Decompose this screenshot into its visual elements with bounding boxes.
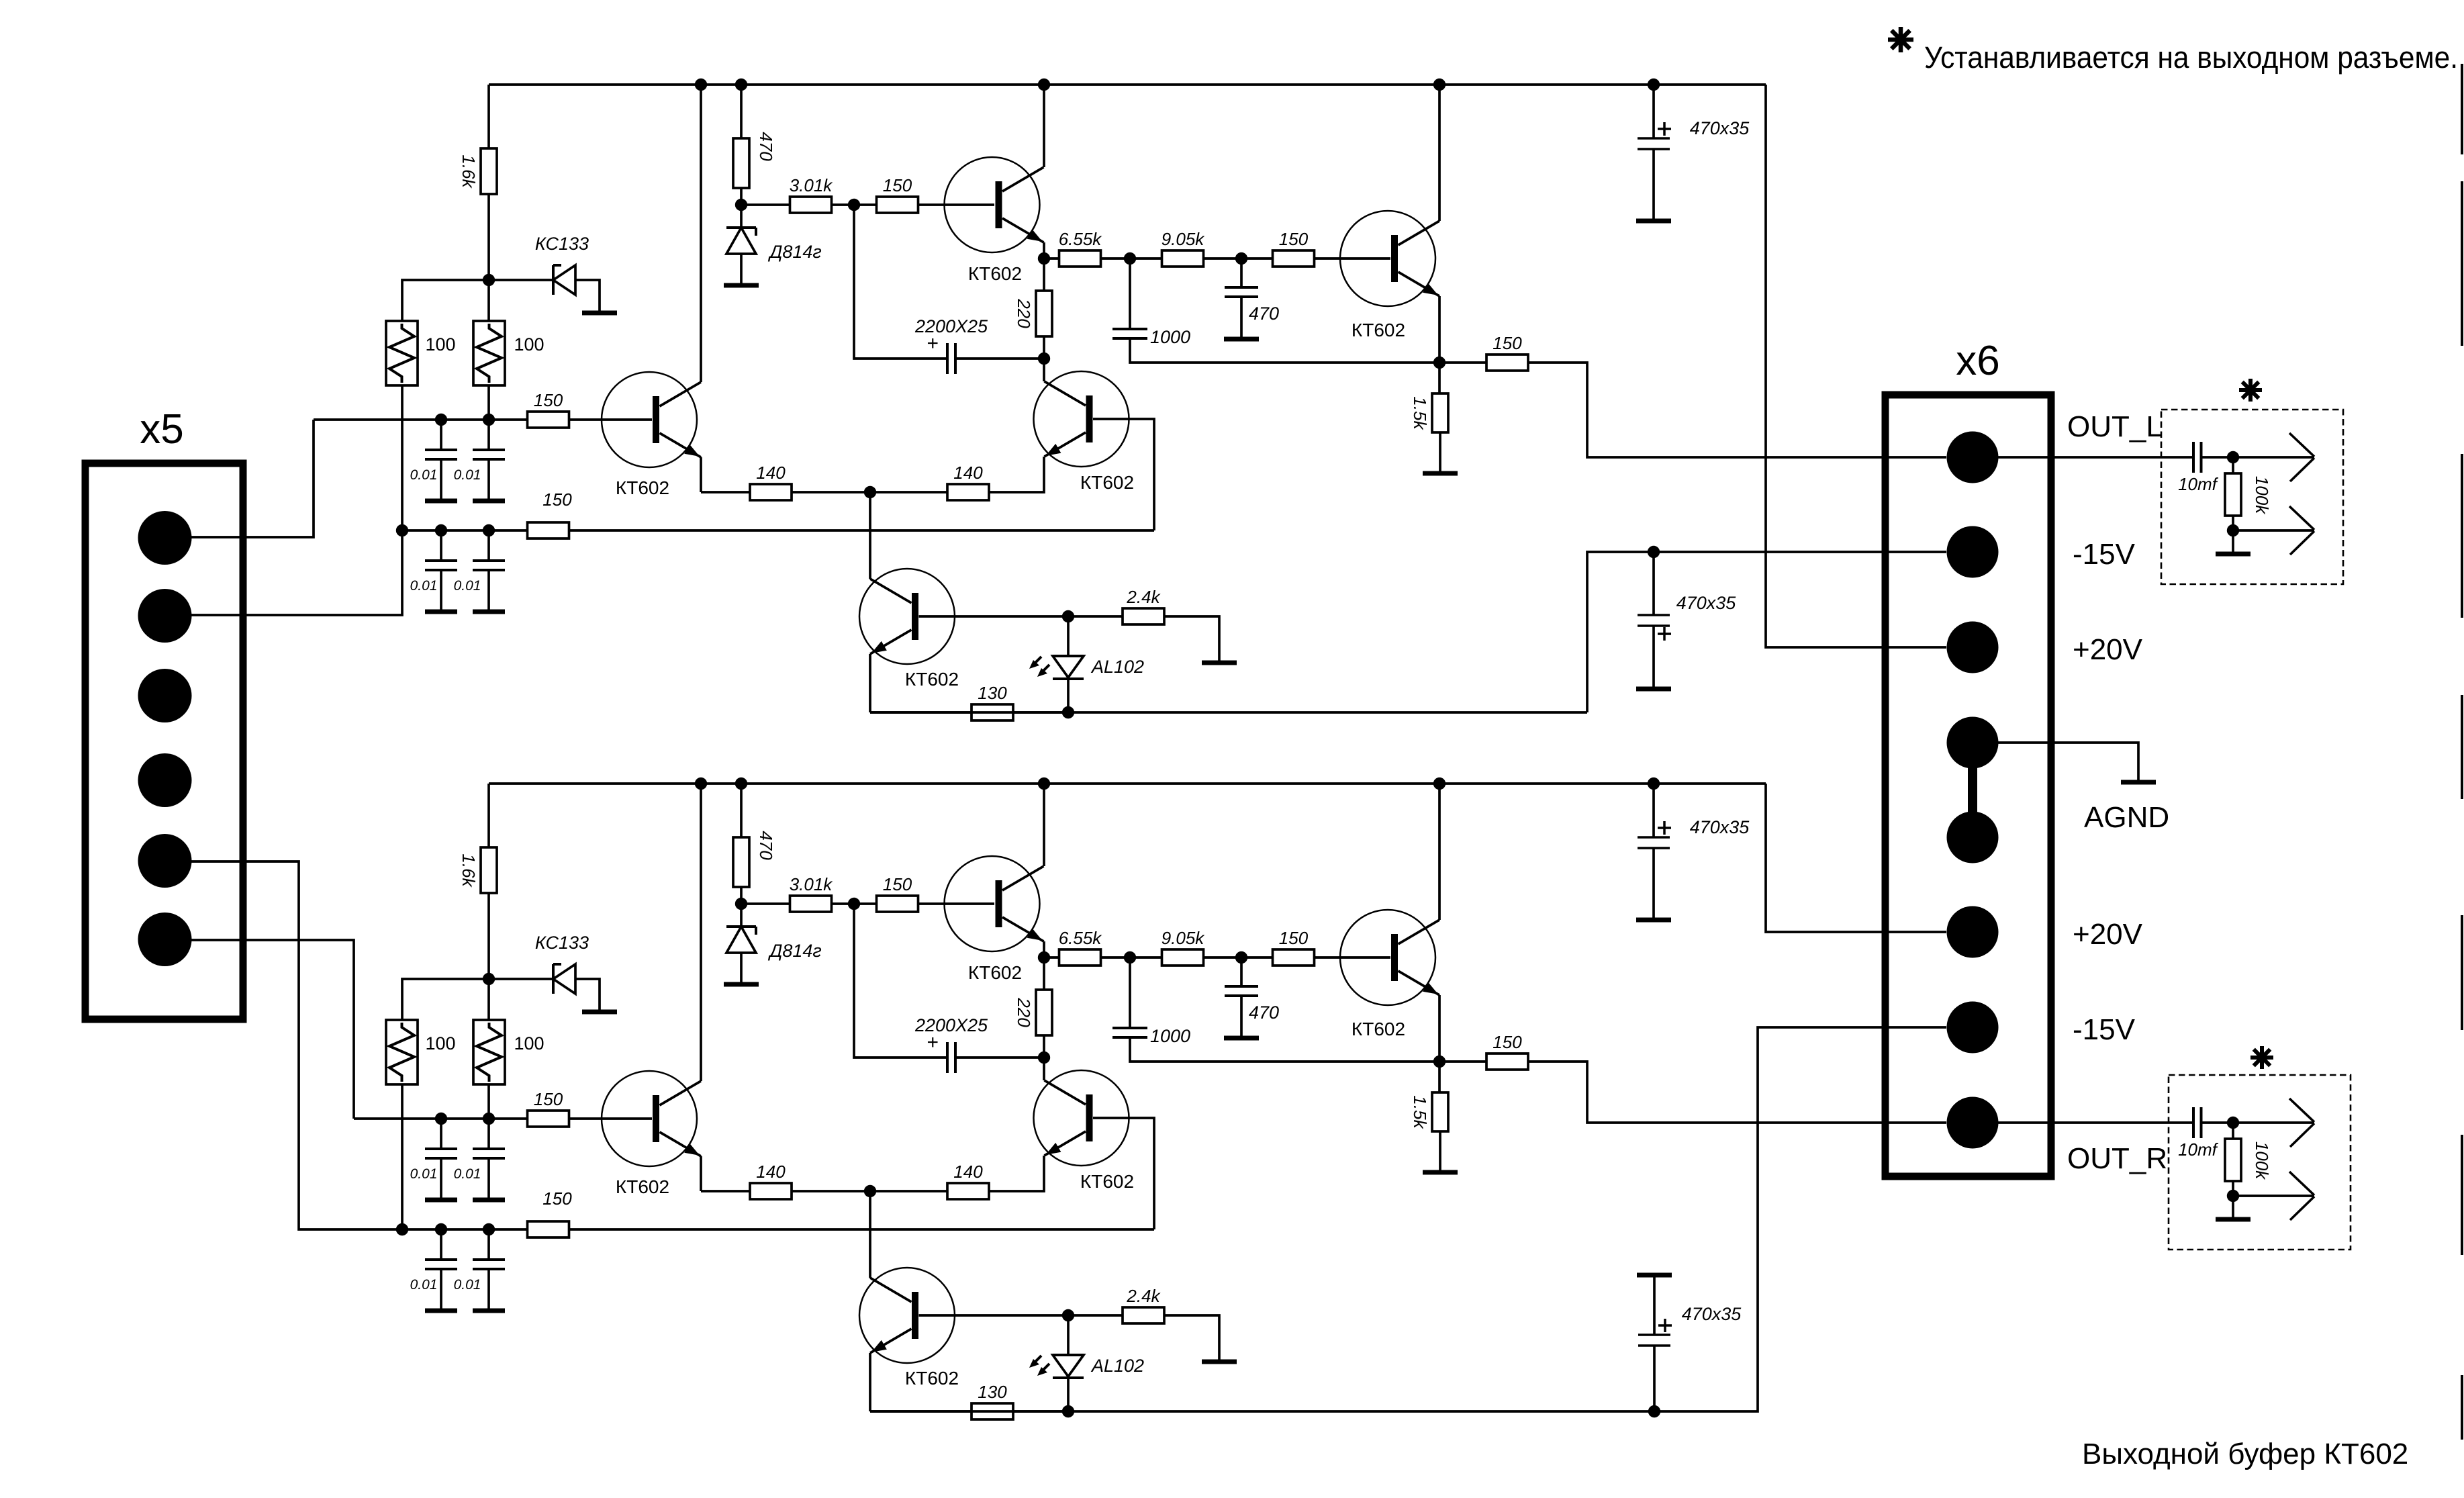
svg-text:1.6k: 1.6k	[459, 154, 479, 189]
svg-text:220: 220	[1014, 997, 1034, 1027]
asterisk marker (OUT_R)	[2250, 1046, 2273, 1069]
resistor 1.5k (left channel)	[1410, 363, 1448, 432]
wire 220 to cap node (left channel)	[1043, 336, 1045, 359]
wire 1.6k to rail (right channel)	[487, 784, 490, 847]
svg-text:470x35: 470x35	[1690, 118, 1750, 138]
node 140 mid (left channel)	[864, 486, 876, 498]
svg-text:0.01: 0.01	[454, 467, 481, 483]
wire node to KC133 (left channel)	[489, 279, 553, 281]
asterisk marker (OUT_L)	[2239, 379, 2262, 402]
svg-text:100: 100	[514, 334, 544, 355]
wire feedback from 3.01k node (right channel)	[854, 904, 947, 1058]
resistor 140 A (right channel)	[750, 1162, 792, 1199]
wire Q2 collector to rail (left channel)	[1043, 85, 1045, 167]
svg-text:2.4k: 2.4k	[1126, 1286, 1161, 1306]
wire Q2 emitter to 6.55k node (left channel)	[1043, 242, 1045, 259]
wire connector pin to 10mf (OUT_L)	[1973, 456, 2193, 459]
svg-text:КТ602: КТ602	[905, 669, 959, 690]
ground 0.01 row1 B (right channel)	[473, 1198, 505, 1203]
capacitor 0.01 row2 A (left channel)	[410, 530, 457, 610]
wire 100L down (right channel)	[401, 1084, 404, 1229]
svg-text:150: 150	[1492, 1032, 1522, 1052]
node 100k top (OUT_L)	[2227, 451, 2239, 463]
wire Q3 emitter down (right channel)	[1438, 995, 1441, 1062]
svg-text:150: 150	[1492, 333, 1522, 353]
node row1 cap A (right channel)	[435, 1113, 447, 1125]
svg-text:x6: x6	[1956, 338, 1999, 384]
svg-text:0.01: 0.01	[410, 467, 438, 483]
wire Q1 collector to rail (left channel)	[700, 85, 702, 382]
resistor 1.6k (right channel)	[459, 847, 497, 893]
wire 140A to node (right channel)	[792, 1190, 948, 1192]
svg-text:AL102: AL102	[1090, 657, 1144, 677]
transistor Q1 KT602 (left channel)	[602, 372, 701, 498]
node 470 cap (left channel)	[1203, 252, 1273, 265]
svg-text:100: 100	[425, 334, 455, 355]
node row1 cap B (left channel)	[483, 414, 495, 426]
resistor 2.4k (right channel)	[1123, 1286, 1164, 1323]
transistor Q4 KT602 current source (left channel)	[859, 569, 959, 690]
node row1 cap B (right channel)	[483, 1113, 495, 1125]
transistor Q2 KT602 driver (right channel)	[945, 856, 1044, 983]
wire 470 to node (right channel)	[740, 887, 743, 904]
node LED cathode (left channel)	[1062, 706, 1074, 718]
transistor Q4 KT602 current source (right channel)	[859, 1268, 959, 1389]
X6 pin 7 -15V	[1947, 1002, 1999, 1054]
transistor Q1 KT602 (right channel)	[602, 1071, 701, 1197]
ground 0.01 row2 B (right channel)	[473, 1309, 505, 1313]
resistor 1.5k (right channel)	[1410, 1062, 1448, 1131]
wire 150 to Q3 base (left channel)	[1314, 257, 1390, 260]
wire OUT_L from 150 to connector	[1528, 363, 1946, 457]
title text	[2082, 1438, 2408, 1470]
wire 140A to node (left channel)	[792, 491, 948, 494]
svg-text:9.05k: 9.05k	[1162, 229, 1206, 249]
resistor 100 left (left channel)	[386, 321, 456, 385]
X6 pin 5 AGND	[1947, 812, 1999, 863]
svg-text:470: 470	[1249, 303, 1279, 324]
transistor Q2b KT602 (right channel)	[1034, 1070, 1135, 1192]
resistor 1.6k (left channel)	[459, 148, 497, 194]
wire 140B to Q2b emitter (left channel)	[989, 457, 1044, 492]
svg-text:100: 100	[514, 1033, 544, 1054]
svg-text:140: 140	[756, 1162, 786, 1182]
svg-text:6.55k: 6.55k	[1059, 229, 1103, 249]
node bias (right channel)	[735, 898, 747, 910]
resistor 100 right (right channel)	[473, 1020, 544, 1084]
ground D814 (left channel)	[724, 283, 759, 288]
resistor 3.01k (left channel)	[741, 175, 833, 213]
resistor 140 B (right channel)	[947, 1162, 989, 1199]
resistor 6.55k (left channel)	[1044, 229, 1102, 267]
node LED cathode (right channel)	[1062, 1405, 1074, 1417]
wire Q4 emitter down (right channel)	[869, 1353, 871, 1411]
svg-text:x5: x5	[140, 406, 183, 453]
ground AGND	[2121, 780, 2156, 785]
ground 470 cap (right channel)	[1224, 1036, 1259, 1041]
transistor Q3 KT602 output (left channel)	[1340, 211, 1439, 340]
node bias (left channel)	[735, 199, 747, 211]
wire 100R down (left channel)	[487, 385, 490, 420]
wire 1.5k to ground (right channel)	[1439, 1131, 1441, 1170]
jack contact tip (OUT_L)	[2289, 433, 2314, 481]
resistor 470 bias (right channel)	[733, 831, 776, 887]
resistor 220 (left channel)	[1014, 259, 1052, 336]
resistor 150 row1 (left channel)	[528, 390, 569, 428]
resistor 220 (right channel)	[1014, 957, 1052, 1035]
wire Q4 collector to 140 node (right channel)	[869, 1191, 871, 1278]
wire Q3 emitter down (left channel)	[1438, 296, 1441, 363]
wire 1.5k to ground (left channel)	[1439, 432, 1441, 471]
X6 pin 6 +20V	[1947, 906, 1999, 958]
wire Q4 base to LED node (right channel)	[919, 1314, 1124, 1317]
resistor 130 (left channel)	[972, 683, 1013, 720]
resistor 150 Q3 base (right channel)	[1273, 928, 1315, 966]
X6 pin 8 OUT_R	[1947, 1097, 1999, 1149]
svg-text:100k: 100k	[2252, 476, 2272, 515]
svg-text:2200X25: 2200X25	[914, 1015, 988, 1035]
wire -15V right channel	[870, 1027, 1946, 1411]
node Q4 base (left channel)	[1062, 610, 1074, 622]
node 140 mid (right channel)	[864, 1185, 876, 1197]
asterisk note marker	[1888, 27, 1913, 52]
svg-text:100k: 100k	[2252, 1141, 2272, 1180]
node Q1 collector rail (left channel)	[695, 79, 707, 91]
node Q2 emitter (left channel)	[1038, 252, 1050, 265]
wire +20V supply rail (right channel)	[489, 782, 1766, 785]
X5 pin 4	[138, 753, 192, 807]
wire OUT_R from 150 to connector	[1528, 1062, 1946, 1123]
wire 2.4k to ground (right channel)	[1164, 1315, 1219, 1360]
node row2 cap A (right channel)	[435, 1223, 447, 1235]
capacitor 470x35 -15V right	[1638, 1277, 1742, 1411]
zener diode KC133 (right channel)	[535, 933, 589, 994]
label +20V right	[2073, 918, 2143, 951]
capacitor 10mf (OUT_L)	[2178, 442, 2219, 494]
wire rail to +20V pin (right channel)	[1766, 784, 1946, 932]
wire connector pin to 10mf (OUT_R)	[1973, 1121, 2193, 1124]
wire Q1 collector to rail (right channel)	[700, 784, 702, 1081]
capacitor 0.01 row1 A (left channel)	[410, 420, 457, 499]
svg-text:6.55k: 6.55k	[1059, 928, 1103, 948]
svg-text:+20V: +20V	[2073, 633, 2143, 666]
svg-text:0.01: 0.01	[454, 1277, 481, 1293]
wire 130 to LED node (left channel)	[1013, 711, 1068, 714]
wire 1.6k to KC133 node (right channel)	[487, 893, 490, 979]
resistor 3.01k (right channel)	[741, 874, 833, 912]
label OUT_R	[2067, 1142, 2167, 1175]
resistor 100 right (left channel)	[473, 321, 544, 385]
wire AGND to ground	[1998, 743, 2138, 780]
capacitor 470x35 -15V left	[1638, 552, 1736, 687]
svg-text:Выходной буфер КТ602: Выходной буфер КТ602	[2082, 1438, 2408, 1470]
ground jack (OUT_R)	[2216, 1217, 2250, 1222]
wire 100k node to jack sleeve (OUT_L)	[2233, 529, 2314, 532]
capacitor 1000 (left channel)	[1112, 259, 1190, 347]
svg-text:3.01k: 3.01k	[790, 175, 834, 195]
ground 2.4k (right channel)	[1202, 1360, 1237, 1364]
svg-text:1.5k: 1.5k	[1410, 396, 1430, 430]
resistor 9.05k (left channel)	[1162, 229, 1206, 267]
svg-text:0.01: 0.01	[454, 1166, 481, 1182]
wire input row 1 (right channel)	[354, 1117, 528, 1120]
capacitor 2200X25 (left channel)	[914, 316, 1044, 374]
wire Q4 base to LED node (left channel)	[919, 615, 1124, 618]
svg-text:0.01: 0.01	[454, 578, 481, 594]
svg-text:10mf: 10mf	[2178, 1139, 2219, 1160]
svg-text:КТ602: КТ602	[968, 962, 1022, 983]
svg-text:470x35: 470x35	[1682, 1304, 1742, 1324]
svg-text:AGND: AGND	[2084, 801, 2169, 834]
capacitor 470 (left channel)	[1225, 259, 1279, 337]
ground 0.01 row1 B (left channel)	[473, 499, 505, 504]
node rail cap (right channel)	[1648, 778, 1660, 790]
svg-text:150: 150	[1279, 229, 1309, 249]
resistor 9.05k (right channel)	[1162, 928, 1206, 966]
wire KC133 to ground (left channel)	[575, 280, 600, 312]
svg-text:КС133: КС133	[535, 234, 589, 254]
svg-text:1.5k: 1.5k	[1410, 1095, 1430, 1129]
wire 100k node to jack sleeve (OUT_R)	[2233, 1195, 2314, 1197]
wire Q2b base to row2 (right channel)	[1093, 1118, 1154, 1229]
node Q3 emitter (right channel)	[1433, 1056, 1446, 1068]
wire right edge segments	[2461, 64, 2463, 1440]
svg-text:2200X25: 2200X25	[914, 316, 988, 336]
wire 1000 to emitter row (right channel)	[1130, 1037, 1439, 1062]
resistor 150 row1 (right channel)	[528, 1089, 569, 1127]
wire feedback from 3.01k node (left channel)	[854, 205, 947, 359]
X6 AGND jumper bar	[1968, 743, 1977, 837]
node 3.01k out (right channel)	[831, 898, 877, 910]
svg-text:0.01: 0.01	[410, 1166, 438, 1182]
ground KC133 (right channel)	[582, 1010, 617, 1015]
wire +20V supply rail (left channel)	[489, 83, 1766, 86]
svg-text:Устанавливается на выходном ра: Устанавливается на выходном разъеме.	[1924, 40, 2458, 75]
node rail cap (left channel)	[1648, 79, 1660, 91]
node 470 cap (right channel)	[1203, 951, 1273, 964]
node 2200X25 (right channel)	[1038, 1051, 1050, 1064]
svg-text:100: 100	[425, 1033, 455, 1054]
ground 0.01 row2 B (left channel)	[473, 610, 505, 614]
svg-text:150: 150	[883, 175, 912, 195]
wire X5 pin1 to row1 left	[191, 420, 314, 537]
X6 pin 1 OUT_L	[1947, 432, 1999, 483]
connector X5	[85, 406, 243, 1019]
wire KC133 node to 100 resistors (left channel)	[402, 280, 489, 321]
wire row2 to Q2b base corner (right channel)	[569, 1228, 1154, 1231]
wire Q4 collector to 140 node (left channel)	[869, 492, 871, 579]
wire 100R down (right channel)	[487, 1084, 490, 1119]
transistor Q3 KT602 output (right channel)	[1340, 910, 1439, 1039]
node 100k bottom (OUT_L)	[2227, 516, 2239, 536]
X6 pin 3 +20V	[1947, 622, 1999, 673]
capacitor 470 (right channel)	[1225, 957, 1279, 1036]
wire Q2b collector up (left channel)	[1043, 359, 1045, 381]
LED AL102 (left channel)	[1029, 616, 1144, 712]
svg-text:470: 470	[756, 132, 776, 161]
X6 pin 2 -15V	[1947, 526, 1999, 578]
node row2 left (left channel)	[396, 524, 408, 536]
X6 pin 4 AGND	[1947, 717, 1999, 769]
node 3.01k out (left channel)	[831, 199, 877, 211]
wire rail to +20V pin (left channel)	[1766, 85, 1946, 647]
wire input row 2 (left channel)	[402, 529, 528, 532]
zener diode D814g (left channel)	[726, 205, 822, 262]
capacitor 0.01 row1 B (left channel)	[454, 420, 505, 499]
wire Q4 emitter down (left channel)	[869, 654, 871, 712]
capacitor 470x35 rail (right channel)	[1638, 784, 1750, 918]
wire 470 to rail (right channel)	[740, 784, 743, 837]
ground 2.4k (left channel)	[1202, 661, 1237, 665]
capacitor 10mf (OUT_R)	[2178, 1107, 2219, 1160]
wire 100k to ground (OUT_L)	[2232, 530, 2234, 552]
svg-text:КТ602: КТ602	[616, 477, 669, 498]
label +20V left	[2073, 633, 2143, 666]
wire Q2 emitter to 6.55k node (right channel)	[1043, 941, 1045, 957]
capacitor 0.01 row1 B (right channel)	[454, 1119, 505, 1198]
node row1 cap A (left channel)	[435, 414, 447, 426]
capacitor 0.01 row2 B (right channel)	[454, 1229, 505, 1309]
wire Q2b collector up (right channel)	[1043, 1058, 1045, 1080]
svg-text:1000: 1000	[1150, 327, 1190, 347]
svg-text:1.6k: 1.6k	[459, 853, 479, 888]
node 100k bottom (OUT_R)	[2227, 1181, 2239, 1202]
wire KC133 to ground (right channel)	[575, 979, 600, 1011]
wire 10mf to jack tip (OUT_L)	[2201, 456, 2315, 459]
capacitor 0.01 row1 A (right channel)	[410, 1119, 457, 1198]
label AGND	[2084, 801, 2169, 834]
capacitor 470x35 rail (left channel)	[1638, 85, 1750, 219]
svg-text:1000: 1000	[1150, 1026, 1190, 1046]
wire 470 to rail (left channel)	[740, 85, 743, 138]
svg-text:КТ602: КТ602	[1352, 1019, 1405, 1039]
wire input row 2 (right channel)	[402, 1228, 528, 1231]
svg-text:10mf: 10mf	[2178, 474, 2219, 494]
wire 140B to Q2b emitter (right channel)	[989, 1156, 1044, 1191]
svg-text:OUT_L: OUT_L	[2067, 410, 2163, 443]
node 1000 cap (left channel)	[1100, 252, 1162, 265]
svg-text:470x35: 470x35	[1676, 593, 1737, 613]
node KC133 junction (left channel)	[483, 274, 495, 286]
svg-text:-15V: -15V	[2073, 538, 2136, 571]
node row2 cap B (right channel)	[483, 1223, 495, 1235]
svg-text:КТ602: КТ602	[1352, 320, 1405, 340]
wire Q3 collector to rail (left channel)	[1438, 85, 1441, 221]
ground 1.5k (right channel)	[1423, 1170, 1458, 1175]
wire 150 to Q2 base (right channel)	[918, 902, 994, 905]
capacitor 0.01 row2 A (right channel)	[410, 1229, 457, 1309]
wire X5 pin5 to row2 right-ch	[190, 861, 402, 1229]
svg-text:150: 150	[542, 489, 572, 510]
wire X5 pin2 to row2 left	[191, 530, 402, 615]
resistor 140 B (left channel)	[947, 463, 989, 500]
wire Q3 collector to rail (right channel)	[1438, 784, 1441, 920]
wire 100k to ground (OUT_R)	[2232, 1196, 2234, 1217]
node row2 left (right channel)	[396, 1223, 408, 1235]
node Q4 base (right channel)	[1062, 1309, 1074, 1321]
wire input row 1 (left channel)	[314, 418, 528, 421]
node Q3 emitter (left channel)	[1433, 357, 1446, 369]
wire 1.6k to rail (left channel)	[487, 85, 490, 148]
capacitor 0.01 row2 B (left channel)	[454, 530, 505, 610]
node Q2 emitter (right channel)	[1038, 951, 1050, 964]
ground 0.01 row1 A (right channel)	[425, 1198, 457, 1203]
node Q3 collector rail (left channel)	[1433, 79, 1446, 91]
svg-text:470: 470	[1249, 1002, 1279, 1023]
wire X5 pin6 to row1 right-ch	[191, 940, 354, 1119]
node 470 rail (left channel)	[735, 79, 747, 91]
wire 150 to Q2 base (left channel)	[918, 203, 994, 206]
ground jack (OUT_L)	[2216, 552, 2250, 557]
wire 150 to Q1 base (right channel)	[569, 1117, 652, 1120]
svg-text:0.01: 0.01	[410, 1277, 438, 1293]
svg-text:2.4k: 2.4k	[1126, 587, 1161, 607]
wire emitter supply row left channel	[870, 711, 1587, 714]
label -15V right	[2073, 1013, 2136, 1046]
svg-text:130: 130	[978, 1382, 1007, 1402]
svg-text:КТ602: КТ602	[1080, 472, 1134, 493]
wire 150 to Q1 base (left channel)	[569, 418, 652, 421]
node 1000 cap (right channel)	[1100, 951, 1162, 964]
dashed box output jack (OUT_L)	[2161, 410, 2343, 584]
svg-text:-15V: -15V	[2073, 1013, 2136, 1046]
wire row2 to Q2b base corner (left channel)	[569, 529, 1154, 532]
svg-text:150: 150	[534, 1089, 563, 1109]
node -15V cap left	[1648, 546, 1660, 558]
node 470 rail (right channel)	[735, 778, 747, 790]
node Q1 collector rail (right channel)	[695, 778, 707, 790]
capacitor 1000 (right channel)	[1112, 957, 1190, 1046]
wire Q1 emitter down (right channel)	[700, 1156, 702, 1191]
wire 130 to LED node (right channel)	[1013, 1410, 1068, 1413]
label -15V left	[2073, 538, 2136, 571]
svg-text:КТ602: КТ602	[968, 263, 1022, 284]
wire 1.6k to KC133 node (left channel)	[487, 194, 490, 280]
ground 0.01 row1 A (left channel)	[425, 499, 457, 504]
jack contact tip (OUT_R)	[2289, 1098, 2314, 1147]
ground 0.01 row2 A (right channel)	[425, 1309, 457, 1313]
wire 220 to cap node (right channel)	[1043, 1035, 1045, 1058]
X5 pin 6	[138, 912, 192, 966]
svg-text:КС133: КС133	[535, 933, 589, 953]
ground 470 cap (left channel)	[1224, 337, 1259, 342]
svg-text:470x35: 470x35	[1690, 817, 1750, 837]
ground 470x35 -15V right	[1637, 1273, 1672, 1278]
svg-text:Д814г: Д814г	[767, 941, 821, 961]
svg-text:150: 150	[542, 1188, 572, 1209]
ground D814 (right channel)	[724, 982, 759, 987]
ground 0.01 row2 A (left channel)	[425, 610, 457, 614]
zener diode D814g (right channel)	[726, 904, 822, 961]
svg-text:КТ602: КТ602	[905, 1368, 959, 1389]
wire Q1 emitter down (left channel)	[700, 457, 702, 492]
svg-text:470: 470	[756, 831, 776, 860]
wire 140 row left (left channel)	[701, 491, 751, 494]
X5 pin 5	[138, 834, 192, 888]
svg-text:220: 220	[1014, 298, 1034, 328]
svg-text:0.01: 0.01	[410, 578, 438, 594]
zener diode KC133 (left channel)	[535, 234, 589, 295]
svg-text:КТ602: КТ602	[616, 1176, 669, 1197]
svg-text:OUT_R: OUT_R	[2067, 1142, 2167, 1175]
dashed box output jack (OUT_R)	[2169, 1075, 2351, 1250]
resistor 150 Q2 base (left channel)	[877, 175, 918, 213]
wire KC133 node to 100 resistors (right channel)	[402, 979, 489, 1020]
resistor 150 output (right channel)	[1439, 1032, 1528, 1070]
resistor 150 row2 (left channel)	[528, 489, 573, 539]
note text	[1924, 40, 2458, 75]
wire emitter row to 130 (right channel)	[870, 1410, 972, 1413]
